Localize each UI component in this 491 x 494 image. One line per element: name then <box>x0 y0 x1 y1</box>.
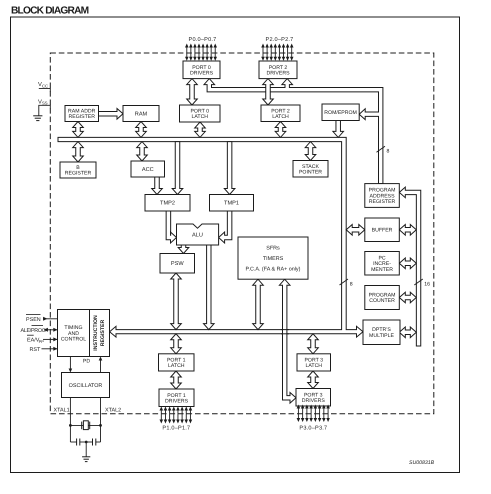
arrow bus - STACK POINTER <box>305 142 316 161</box>
register B REGISTER <box>60 162 96 178</box>
dashed chip boundary <box>50 53 434 414</box>
trace SFR block - PORT3 DRIVERS <box>279 279 296 403</box>
arrow ROM/EPROM - bus <box>333 121 344 138</box>
wire OSCILLATOR to TIMING CONTROL <box>99 357 103 373</box>
svg-text:REGISTER: REGISTER <box>369 199 396 205</box>
memory ROM/EPROM <box>322 104 359 121</box>
node capacitor junction <box>85 441 88 444</box>
arrow BUFFER - pc bus <box>399 225 416 236</box>
node XTAL2 junction <box>99 424 102 427</box>
capacitor C1 <box>77 439 80 446</box>
crystal Y1 <box>82 421 90 430</box>
arrow bus - BUFFER (left) <box>346 225 365 236</box>
svg-text:ALE/PROG: ALE/PROG <box>21 328 46 334</box>
svg-text:RST: RST <box>30 347 41 353</box>
arrow PORT0 LATCH - bus <box>195 122 206 137</box>
arrow PORT2 LATCH - bus <box>275 122 286 138</box>
arrow ALU - PSW <box>178 245 189 254</box>
svg-text:P3.0–P3.7: P3.0–P3.7 <box>299 426 327 432</box>
arrow ACC - TMP2 <box>152 177 163 195</box>
arrow PORT2 DRIVERS - PORT2 LATCH <box>263 79 274 105</box>
register TMP2 <box>145 195 190 212</box>
svg-text:8: 8 <box>350 281 353 287</box>
input ALE/PROG <box>21 326 58 334</box>
svg-text:REGISTER: REGISTER <box>68 114 95 120</box>
block PORT 2 DRIVERS <box>259 61 297 79</box>
svg-text:LATCH: LATCH <box>272 114 289 120</box>
arrow PORT0 DRIVERS - PORT0 LATCH <box>187 79 198 105</box>
svg-text:ACC: ACC <box>142 167 154 173</box>
arrow TMP2 - ALU <box>166 211 176 243</box>
svg-text:PP: PP <box>39 339 45 344</box>
arrow PC INCREMENTER - pc bus <box>399 258 416 269</box>
internal data bus (upper bus, right vertical with 8-bit branch, lower bus into instruction register and DPTRs multiple) <box>58 137 363 337</box>
arrow DPTRS MULTIPLE - pc bus <box>399 327 416 338</box>
block PC INCREMENTER <box>365 252 400 276</box>
svg-text:MULTIPLE: MULTIPLE <box>369 333 395 339</box>
arrow PORT1 LATCH - PORT1 DRIVERS <box>171 371 182 389</box>
ground for VSS <box>33 116 42 121</box>
svg-text:PD: PD <box>83 359 90 365</box>
arrow RAM - bus <box>136 122 147 138</box>
arrow bus - ACC <box>137 142 148 161</box>
wire XTAL2 <box>100 398 102 443</box>
svg-text:P1.0–P1.7: P1.0–P1.7 <box>162 426 190 432</box>
arrow PSW - lower bus <box>171 273 182 330</box>
wire bottom left to capacitor <box>70 441 76 443</box>
block PORT 3 DRIVERS <box>296 389 331 407</box>
register PORT 2 LATCH <box>261 105 300 122</box>
svg-text:TMP1: TMP1 <box>224 201 239 207</box>
register PROGRAM COUNTER <box>365 286 400 310</box>
svg-text:LATCH: LATCH <box>191 114 208 120</box>
register TMP1 <box>210 195 254 212</box>
svg-text:DRIVERS: DRIVERS <box>266 70 290 76</box>
register PROGRAM ADDRESS REGISTER <box>365 184 400 208</box>
block SFRs TIMERS PCA <box>238 237 308 279</box>
wire capacitor to XTAL2 leg <box>96 441 101 443</box>
port 3 pins P3.0-P3.7 <box>297 405 330 423</box>
svg-text:RAM: RAM <box>135 111 148 117</box>
svg-text:REGISTER: REGISTER <box>100 319 106 346</box>
svg-text:MENTER: MENTER <box>371 267 393 273</box>
svg-text:SU00831B: SU00831B <box>409 460 435 466</box>
register BUFFER <box>365 218 400 242</box>
capacitor C2 <box>93 439 96 446</box>
block PORT 0 DRIVERS <box>183 61 220 79</box>
register PORT 0 LATCH <box>180 105 221 122</box>
svg-text:LATCH: LATCH <box>305 363 322 369</box>
input RST <box>30 347 58 353</box>
svg-text:DRIVERS: DRIVERS <box>302 398 326 404</box>
register DPTRS MULTIPLE <box>363 320 400 345</box>
arrow SFR block - lower bus <box>253 279 264 329</box>
svg-text:P2.0–P2.7: P2.0–P2.7 <box>266 37 294 43</box>
arrow PORT3 LATCH - PORT3 DRIVERS <box>308 371 319 389</box>
svg-text:POINTER: POINTER <box>299 169 322 175</box>
port 1 pins P1.0-P1.7 <box>160 407 193 424</box>
ground for crystal <box>82 457 90 462</box>
power VCC pin <box>38 82 50 92</box>
svg-text:8: 8 <box>387 149 390 155</box>
register PORT 3 LATCH <box>297 354 331 371</box>
arrow TMP1 - ALU <box>219 211 232 243</box>
arrow lower bus - PORT1 LATCH <box>171 334 182 354</box>
wire to ground <box>85 442 87 457</box>
register RAM ADDR REGISTER <box>65 106 99 122</box>
power VSS pin <box>38 99 50 116</box>
svg-text:CC: CC <box>42 83 48 88</box>
block RAM <box>123 106 159 122</box>
svg-text:BLOCK DIAGRAM: BLOCK DIAGRAM <box>11 6 89 17</box>
svg-text:XTAL1: XTAL1 <box>54 408 70 414</box>
bus width 8 (data to DPTR) <box>340 279 353 287</box>
bus width 16 (program counter bus) <box>414 279 430 287</box>
svg-text:PSEN: PSEN <box>26 317 41 323</box>
program counter bus 16-bit with arrow into PROGRAM ADDRESS REGISTER <box>399 187 420 346</box>
wire XTAL1 <box>69 398 71 443</box>
svg-text:TMP2: TMP2 <box>160 201 175 207</box>
arrow bus - TMP1 <box>224 142 235 195</box>
arrow bus - TMP2 <box>172 142 183 195</box>
wire TIMING CONTROL to OSCILLATOR <box>69 357 73 373</box>
arrow PROGRAM COUNTER - pc bus <box>399 292 416 303</box>
svg-text:SFRs: SFRs <box>266 246 280 252</box>
svg-text:OSCILLATOR: OSCILLATOR <box>69 383 103 389</box>
register ACC <box>131 161 165 177</box>
svg-text:TIMERS: TIMERS <box>263 256 284 262</box>
block PORT 1 DRIVERS <box>159 389 194 407</box>
node XTAL1 junction <box>69 424 72 427</box>
address bus trace: PORT0/PORT2 drivers to ROM/EPROM and program address register (8-bit) <box>204 79 383 184</box>
svg-text:COUNTER: COUNTER <box>369 298 395 304</box>
svg-text:P0.0–P0.7: P0.0–P0.7 <box>189 37 217 43</box>
svg-text:INSTRUCTION: INSTRUCTION <box>93 315 99 351</box>
block TIMING AND CONTROL with INSTRUCTION REGISTER <box>58 310 110 357</box>
svg-text:CONTROL: CONTROL <box>61 337 86 343</box>
wire crystal top <box>70 424 100 426</box>
wire between capacitors <box>80 441 93 443</box>
port 0 pins P0.0-P0.7 <box>185 44 217 61</box>
register STACK POINTER <box>293 161 328 178</box>
svg-text:DRIVERS: DRIVERS <box>165 398 189 404</box>
svg-text:XTAL2: XTAL2 <box>105 408 121 414</box>
arrow RAM ADDR REGISTER - RAM <box>99 109 124 120</box>
ALU <box>177 224 219 245</box>
svg-text:16: 16 <box>424 281 430 287</box>
svg-text:LATCH: LATCH <box>168 363 185 369</box>
svg-text:PSW: PSW <box>171 261 184 267</box>
arrow RAM ADDR REGISTER - bus <box>73 122 84 138</box>
wire lower bus crossing SFR trace <box>281 330 289 334</box>
svg-text:P.C.A. (FA & RA+ only): P.C.A. (FA & RA+ only) <box>246 266 301 272</box>
svg-text:REGISTER: REGISTER <box>65 171 92 177</box>
svg-text:ALU: ALU <box>192 233 203 239</box>
arrow lower bus - PORT3 LATCH <box>308 334 319 354</box>
svg-text:ROM/EPROM: ROM/EPROM <box>324 110 357 116</box>
port 2 pins P2.0-P2.7 <box>261 44 293 61</box>
trace ALU - lower bus <box>204 245 215 330</box>
svg-text:DRIVERS: DRIVERS <box>190 70 214 76</box>
block OSCILLATOR <box>62 373 110 398</box>
register PORT 1 LATCH <box>159 354 195 371</box>
svg-text:BUFFER: BUFFER <box>372 228 393 234</box>
bus width 8 (address) <box>377 146 390 154</box>
arrow bus - B REGISTER <box>73 142 84 162</box>
input PSEN <box>26 315 58 323</box>
register PSW <box>160 254 195 274</box>
input EA/Vpp <box>27 335 58 344</box>
